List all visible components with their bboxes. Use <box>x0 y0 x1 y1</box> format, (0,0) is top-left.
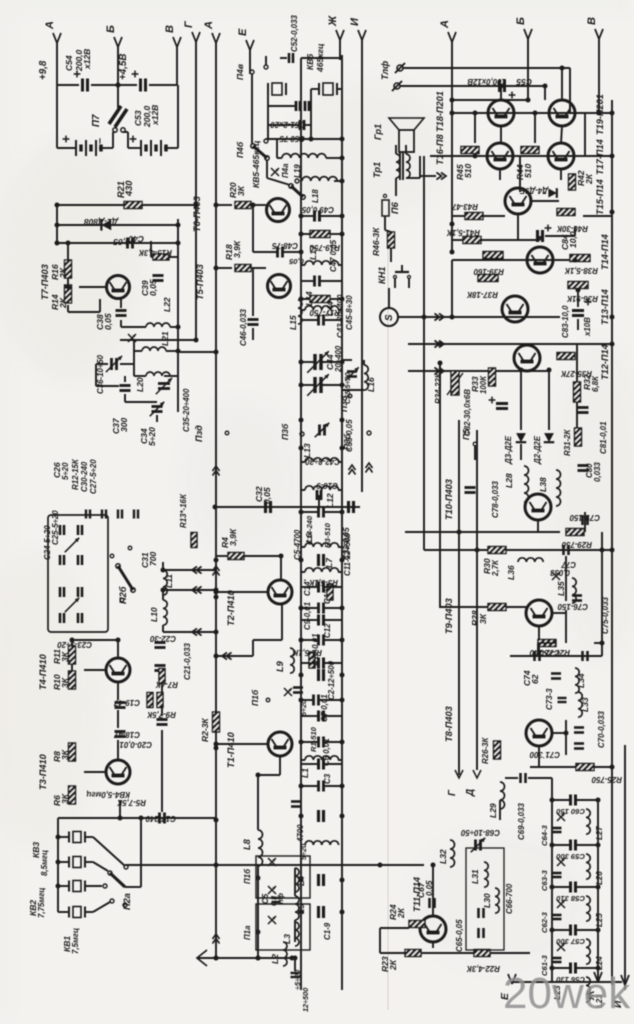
svg-text:Т16-П8: Т16-П8 <box>435 134 445 165</box>
label Pza <box>194 425 204 442</box>
resistor R42 <box>569 174 576 190</box>
label R11v <box>60 651 70 662</box>
label C84v <box>568 231 578 248</box>
wire <box>267 178 290 185</box>
wire <box>180 351 216 353</box>
label C34 <box>139 428 149 444</box>
contact Karm <box>123 903 127 907</box>
label L23b <box>552 985 562 1000</box>
junction <box>214 818 219 823</box>
label С44 <box>326 301 335 316</box>
transistor T17 <box>548 143 574 169</box>
junction <box>475 548 480 553</box>
inductor L27 <box>586 809 590 834</box>
capacitor C15 <box>293 688 303 693</box>
label R32 <box>582 374 592 390</box>
label C32v <box>262 487 272 504</box>
wire <box>379 928 381 953</box>
label C21 <box>183 643 192 680</box>
resistor R24 <box>409 921 425 928</box>
wire <box>576 402 578 429</box>
label Cx5 <box>323 922 332 940</box>
svg-text:Т7-П403: Т7-П403 <box>40 264 50 300</box>
wire <box>490 952 530 954</box>
wire <box>120 298 122 308</box>
contact K1 <box>110 899 114 903</box>
capacitor C18 <box>115 732 126 737</box>
wire <box>301 571 305 573</box>
wire row656 <box>510 655 602 657</box>
label D1 <box>84 217 119 227</box>
wire <box>338 571 342 573</box>
quartz KB1 <box>69 907 85 918</box>
wire <box>325 763 342 765</box>
junction <box>293 956 298 961</box>
transistor T16 <box>487 143 513 169</box>
label C36 <box>96 354 105 394</box>
label С12 <box>323 623 332 638</box>
label R31 <box>563 429 572 456</box>
svg-text:С22-30: С22-30 <box>150 634 176 643</box>
wire <box>301 741 318 743</box>
wire <box>380 952 405 954</box>
label C74 <box>522 670 532 686</box>
svg-text:С18-47: С18-47 <box>114 730 140 739</box>
svg-text:А: А <box>44 21 56 30</box>
label R7 <box>155 680 178 689</box>
label 5-20b <box>299 844 308 860</box>
capacitor C55' trimmer <box>345 367 359 381</box>
svg-text:R36-91К: R36-91К <box>566 294 598 303</box>
label R11 <box>52 649 62 664</box>
dot P1a <box>256 930 260 934</box>
capacitor pre0 <box>86 510 90 519</box>
junction <box>600 641 605 646</box>
wire row767 <box>530 766 612 768</box>
wire <box>292 105 295 107</box>
label D2 <box>533 435 542 465</box>
capacitor Cb1 <box>291 973 300 977</box>
wire <box>67 278 69 288</box>
transistor T14 <box>527 247 553 273</box>
label C45 <box>345 295 354 330</box>
svg-text:430: 430 <box>124 180 134 197</box>
label L6 <box>304 533 314 543</box>
wire <box>58 836 69 838</box>
capacitor Cx3 <box>319 810 324 822</box>
label С63-3 <box>540 870 549 891</box>
wire <box>552 886 570 888</box>
label R5 <box>116 798 146 807</box>
label C31 <box>140 552 150 568</box>
transistor T2 <box>268 580 292 604</box>
watermark <box>503 969 631 1018</box>
wire <box>576 886 598 888</box>
label P1a <box>243 925 252 940</box>
wire <box>125 886 141 888</box>
transistor T18 <box>488 100 514 126</box>
svg-text:С64-3: С64-3 <box>540 825 549 846</box>
wire <box>84 771 106 773</box>
resistor R4 <box>228 553 244 560</box>
wire bus y371 <box>408 370 548 372</box>
wire <box>72 639 118 641</box>
label C55v <box>467 77 506 86</box>
label C50 <box>279 134 305 143</box>
junction <box>116 638 121 643</box>
label C81 <box>599 422 608 454</box>
label C55 <box>516 77 532 87</box>
svg-text:С48-75: С48-75 <box>272 241 298 250</box>
wire <box>177 257 179 327</box>
junction <box>450 98 455 103</box>
label R30 <box>482 558 492 574</box>
svg-text:С70-0,033: С70-0,033 <box>597 711 606 748</box>
wire <box>301 489 305 491</box>
label P1b2 <box>243 868 252 884</box>
label C65 <box>455 919 464 952</box>
svg-text:Б: Б <box>515 17 527 25</box>
junction <box>213 505 218 510</box>
junction <box>340 698 345 703</box>
junction <box>70 638 75 643</box>
svg-text:2К: 2К <box>584 173 594 185</box>
wire <box>96 363 108 365</box>
junction <box>340 383 345 388</box>
contact P3b2 <box>300 432 304 436</box>
wire bank rail R <box>597 798 599 982</box>
wire <box>57 147 75 149</box>
wire base T7 <box>79 286 107 288</box>
wire <box>301 511 318 513</box>
label R23 <box>380 956 390 972</box>
capacitor С58 <box>571 882 576 893</box>
label T16 <box>435 134 445 165</box>
wire bus Zh vertical <box>339 38 341 60</box>
wire <box>520 370 522 430</box>
label C77 <box>561 560 576 569</box>
resistor R7 <box>159 669 165 684</box>
wire <box>324 607 342 609</box>
svg-text:7,75мгц: 7,75мгц <box>37 887 46 918</box>
resistor R17 <box>310 296 330 303</box>
svg-text:С55: С55 <box>516 77 532 87</box>
resistor R46 <box>388 232 395 248</box>
wire <box>267 106 269 139</box>
label С58 <box>556 894 585 903</box>
wire <box>584 512 586 532</box>
label C14b <box>305 515 314 545</box>
capacitor C20 <box>157 720 168 725</box>
svg-text:2К: 2К <box>58 267 68 279</box>
capacitor C36 trimmer <box>106 356 122 372</box>
junction <box>118 816 123 821</box>
wire <box>505 777 518 779</box>
svg-text:П4а: П4а <box>281 163 290 178</box>
trimmer С62-3 <box>557 900 565 908</box>
wire <box>117 740 119 760</box>
svg-text:Д2-Д2Е: Д2-Д2Е <box>533 435 542 465</box>
label C14 <box>303 579 312 596</box>
wire <box>301 607 318 609</box>
wire <box>565 610 567 643</box>
svg-text:L20: L20 <box>135 377 145 392</box>
chevron 632 <box>192 629 202 636</box>
resistor R14 <box>65 285 72 303</box>
svg-text:R13*-16К: R13*-16К <box>179 493 188 528</box>
label C24 <box>43 525 52 560</box>
antenna chevron <box>197 950 207 966</box>
inductor L26 <box>586 854 590 879</box>
wire <box>169 256 178 258</box>
label C17 <box>145 814 176 823</box>
label C34 value <box>147 427 157 446</box>
label P3b2 <box>280 423 290 440</box>
capacitor C71a <box>574 728 584 733</box>
capacitor bank4 <box>60 587 64 597</box>
label L35 <box>556 581 566 596</box>
svg-text:х12В: х12В <box>150 105 160 126</box>
contact K3 <box>108 871 112 875</box>
svg-text:С76-150: С76-150 <box>557 602 588 611</box>
wire row532 <box>405 531 560 533</box>
label L20 <box>135 377 145 392</box>
junction <box>340 297 345 302</box>
svg-text:R25-750: R25-750 <box>591 775 622 784</box>
wire R21 row <box>57 204 196 206</box>
switch P2a arm <box>110 873 125 887</box>
inductor L28 <box>524 466 529 502</box>
trimmer mark3 <box>284 688 292 696</box>
inductor L20 <box>146 372 170 376</box>
capacitor C79 <box>583 515 588 525</box>
transistor T6 <box>267 199 290 222</box>
label R38 <box>564 266 598 275</box>
resistor R40 <box>557 209 575 216</box>
label A3 <box>323 522 332 548</box>
wire <box>161 708 163 716</box>
svg-text:С45-8÷30: С45-8÷30 <box>345 295 354 330</box>
resistor R23 <box>405 950 421 957</box>
transistor T9 <box>526 600 552 626</box>
label T3 <box>38 753 48 790</box>
capacitor С56 <box>571 963 576 974</box>
wire <box>552 929 570 931</box>
label 465 <box>315 43 325 73</box>
wire <box>440 606 488 608</box>
junction <box>596 885 601 890</box>
label L31 <box>470 869 480 884</box>
wire <box>113 131 115 133</box>
svg-text:С20-0,01: С20-0,01 <box>120 740 152 749</box>
wire row T16/T17 <box>430 155 612 157</box>
junction <box>340 814 345 819</box>
capacitor C80a <box>578 408 589 413</box>
capacitor C16 <box>317 490 321 500</box>
label R1b <box>309 726 318 752</box>
inductor L11 <box>163 570 167 595</box>
label R15 <box>138 248 172 257</box>
label Zh2 <box>586 989 597 1001</box>
wire <box>326 157 342 159</box>
label A power <box>44 21 56 30</box>
capacitor С60 <box>571 795 576 806</box>
net B2 arrow <box>524 29 532 39</box>
junction <box>256 956 261 961</box>
capacitor C39 <box>153 276 164 281</box>
svg-text:0,05: 0,05 <box>103 313 113 330</box>
wire mid rail L <box>300 58 302 990</box>
junction <box>596 798 601 803</box>
wire bus G vertical <box>195 40 197 342</box>
svg-text:П6: П6 <box>390 201 400 214</box>
wire <box>324 741 342 743</box>
label Zh <box>327 15 339 27</box>
junction <box>596 966 601 971</box>
resistor R43 <box>465 213 483 220</box>
label R28 <box>470 610 480 626</box>
capacitor C52 <box>289 53 293 63</box>
label G <box>183 20 195 28</box>
svg-text:5÷20: 5÷20 <box>147 427 157 446</box>
svg-text:R43-47: R43-47 <box>452 202 478 211</box>
svg-text:L36: L36 <box>506 565 516 580</box>
junction <box>214 558 219 563</box>
label R19 <box>309 243 340 252</box>
wire <box>170 326 178 328</box>
wire T15 collector <box>519 156 521 192</box>
svg-text:R22-4,3К: R22-4,3К <box>466 964 500 973</box>
label KB1v <box>71 928 80 954</box>
label R29 <box>561 540 592 549</box>
label L33 <box>580 697 590 712</box>
inductor L29 <box>500 782 505 809</box>
label C80v <box>593 462 602 482</box>
resistor R8 <box>69 743 76 761</box>
wire <box>258 774 280 776</box>
quartz KB3 <box>69 857 85 868</box>
svg-text:L7: L7 <box>324 557 334 568</box>
label C74v <box>530 674 540 684</box>
inductor L16 <box>364 365 368 390</box>
svg-text:2,7К: 2,7К <box>491 559 500 577</box>
svg-text:20wek: 20wek <box>503 969 631 1018</box>
svg-text:510: 510 <box>523 164 533 178</box>
wire <box>380 927 409 929</box>
capacitor C48 <box>278 247 283 258</box>
svg-text:С71`300: С71`300 <box>529 750 560 759</box>
wire <box>117 85 119 108</box>
label 5-20c <box>293 970 302 990</box>
junction <box>116 83 121 88</box>
label R18v <box>232 240 242 258</box>
var arrows bank <box>65 538 79 612</box>
wire <box>458 770 460 775</box>
capacitor C72a <box>535 651 540 661</box>
label C54 value <box>74 49 84 72</box>
resistor R15 <box>153 254 169 260</box>
wire <box>338 759 342 761</box>
wire <box>544 86 546 100</box>
wire T10 emitter <box>537 520 539 532</box>
wire bank rail L <box>551 778 553 982</box>
label L1 <box>300 768 310 778</box>
label C25 <box>51 510 60 545</box>
label R45v <box>463 164 473 178</box>
fuse P6 <box>382 194 389 216</box>
svg-text:Ж: Ж <box>327 15 339 27</box>
label G2 <box>447 789 458 796</box>
wire <box>177 85 179 148</box>
capacitor C78 <box>465 488 476 493</box>
label V power <box>164 25 176 33</box>
inductor L1 <box>305 756 339 760</box>
label R27 <box>539 648 570 657</box>
wire T14 row <box>452 259 573 261</box>
junction <box>550 798 555 803</box>
switch P3b dot <box>348 394 352 398</box>
wire B down <box>117 45 119 85</box>
transistor T19 <box>549 100 575 126</box>
junction <box>340 558 345 563</box>
label D4 <box>519 186 549 195</box>
junction <box>340 214 345 219</box>
capacitor С6 <box>319 737 324 748</box>
wire <box>324 319 342 321</box>
label C82 <box>463 389 472 436</box>
capacitor C73c <box>558 698 567 702</box>
wire <box>244 555 281 557</box>
wire T19 collector <box>561 68 563 100</box>
svg-text:С69-0,033: С69-0,033 <box>517 803 526 840</box>
inductor L4 <box>295 868 299 892</box>
contact K4 <box>124 865 128 869</box>
capacitor C32c <box>266 501 271 513</box>
junction <box>422 315 427 320</box>
junction <box>299 232 304 237</box>
label С56 <box>556 975 585 984</box>
wire <box>91 84 118 86</box>
resistor R44 <box>521 147 539 154</box>
capacitor C38 <box>116 311 127 316</box>
wire rail477 to D <box>476 430 478 770</box>
resistor R16 <box>65 260 72 278</box>
label R30v <box>491 559 500 577</box>
capacitor bank7 <box>78 613 82 623</box>
svg-text:L13: L13 <box>302 443 312 458</box>
label P2b <box>118 586 128 604</box>
label R10v <box>60 677 70 688</box>
junction <box>299 698 304 703</box>
svg-text:Е: Е <box>237 28 249 36</box>
junction <box>340 137 345 142</box>
svg-text:Т4-П410: Т4-П410 <box>38 653 48 690</box>
wire <box>406 177 420 179</box>
wire <box>280 556 282 580</box>
transformer core <box>400 152 403 180</box>
wire <box>499 800 501 820</box>
junction <box>610 154 615 159</box>
wire <box>330 233 342 235</box>
wire right rail2 <box>624 745 626 990</box>
wire filter row <box>266 138 342 140</box>
label L26 <box>595 871 604 885</box>
label T4 <box>38 653 48 690</box>
svg-text:100К: 100К <box>479 375 488 394</box>
label minus b1 <box>94 138 106 144</box>
svg-text:+9,8: +9,8 <box>38 60 49 80</box>
capacitor C4700 <box>291 802 301 807</box>
